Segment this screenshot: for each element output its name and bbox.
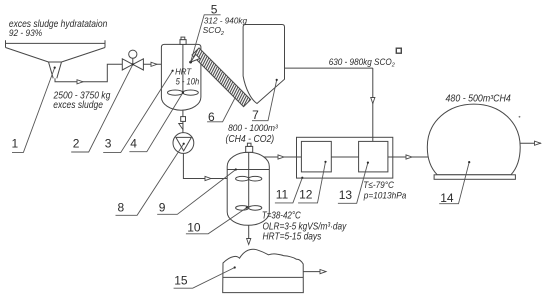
svg-text:9: 9 — [159, 201, 166, 215]
svg-text:SCO2: SCO2 — [203, 25, 224, 37]
svg-text:2: 2 — [73, 136, 80, 150]
svg-text:92 - 93%: 92 - 93% — [9, 28, 42, 38]
svg-text:4: 4 — [130, 136, 137, 150]
svg-text:T≤-79°C: T≤-79°C — [363, 180, 394, 191]
svg-text:T=38-42°C: T=38-42°C — [262, 211, 302, 222]
svg-text:3: 3 — [105, 136, 112, 150]
svg-text:800 - 1000m³: 800 - 1000m³ — [228, 123, 279, 133]
svg-text:15: 15 — [174, 274, 188, 288]
svg-text:6: 6 — [208, 110, 215, 124]
svg-text:11: 11 — [276, 188, 289, 202]
svg-text:13: 13 — [339, 188, 353, 202]
svg-text:HRT: HRT — [175, 66, 192, 76]
svg-text:5 - 10h: 5 - 10h — [176, 77, 200, 87]
svg-text:14: 14 — [440, 191, 454, 205]
svg-text:7: 7 — [252, 108, 259, 122]
svg-text:5: 5 — [211, 2, 218, 16]
svg-text:exces sludge: exces sludge — [53, 100, 103, 111]
svg-text:8: 8 — [118, 201, 125, 215]
svg-text:p=1013hPa: p=1013hPa — [363, 190, 406, 200]
svg-text:312 - 940kg: 312 - 940kg — [204, 16, 247, 26]
svg-text:12: 12 — [299, 188, 313, 202]
svg-text:480 - 500m³CH4: 480 - 500m³CH4 — [446, 93, 512, 104]
svg-text:630 - 980kg SCO2: 630 - 980kg SCO2 — [329, 57, 395, 69]
svg-text:1: 1 — [12, 136, 19, 150]
svg-text:HRT=5-15 days: HRT=5-15 days — [263, 231, 322, 242]
svg-text:10: 10 — [187, 220, 201, 234]
svg-text:(CH4 - CO2): (CH4 - CO2) — [226, 134, 275, 145]
